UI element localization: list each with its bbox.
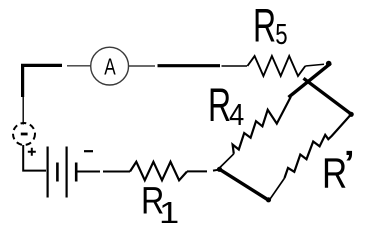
svg-text:4: 4 — [229, 99, 244, 133]
svg-text:’: ’ — [343, 142, 356, 190]
svg-text:A: A — [104, 54, 116, 80]
svg-text:5: 5 — [275, 20, 287, 51]
svg-text:1: 1 — [159, 196, 179, 230]
svg-text:R: R — [208, 79, 231, 132]
svg-text:R: R — [253, 0, 276, 52]
